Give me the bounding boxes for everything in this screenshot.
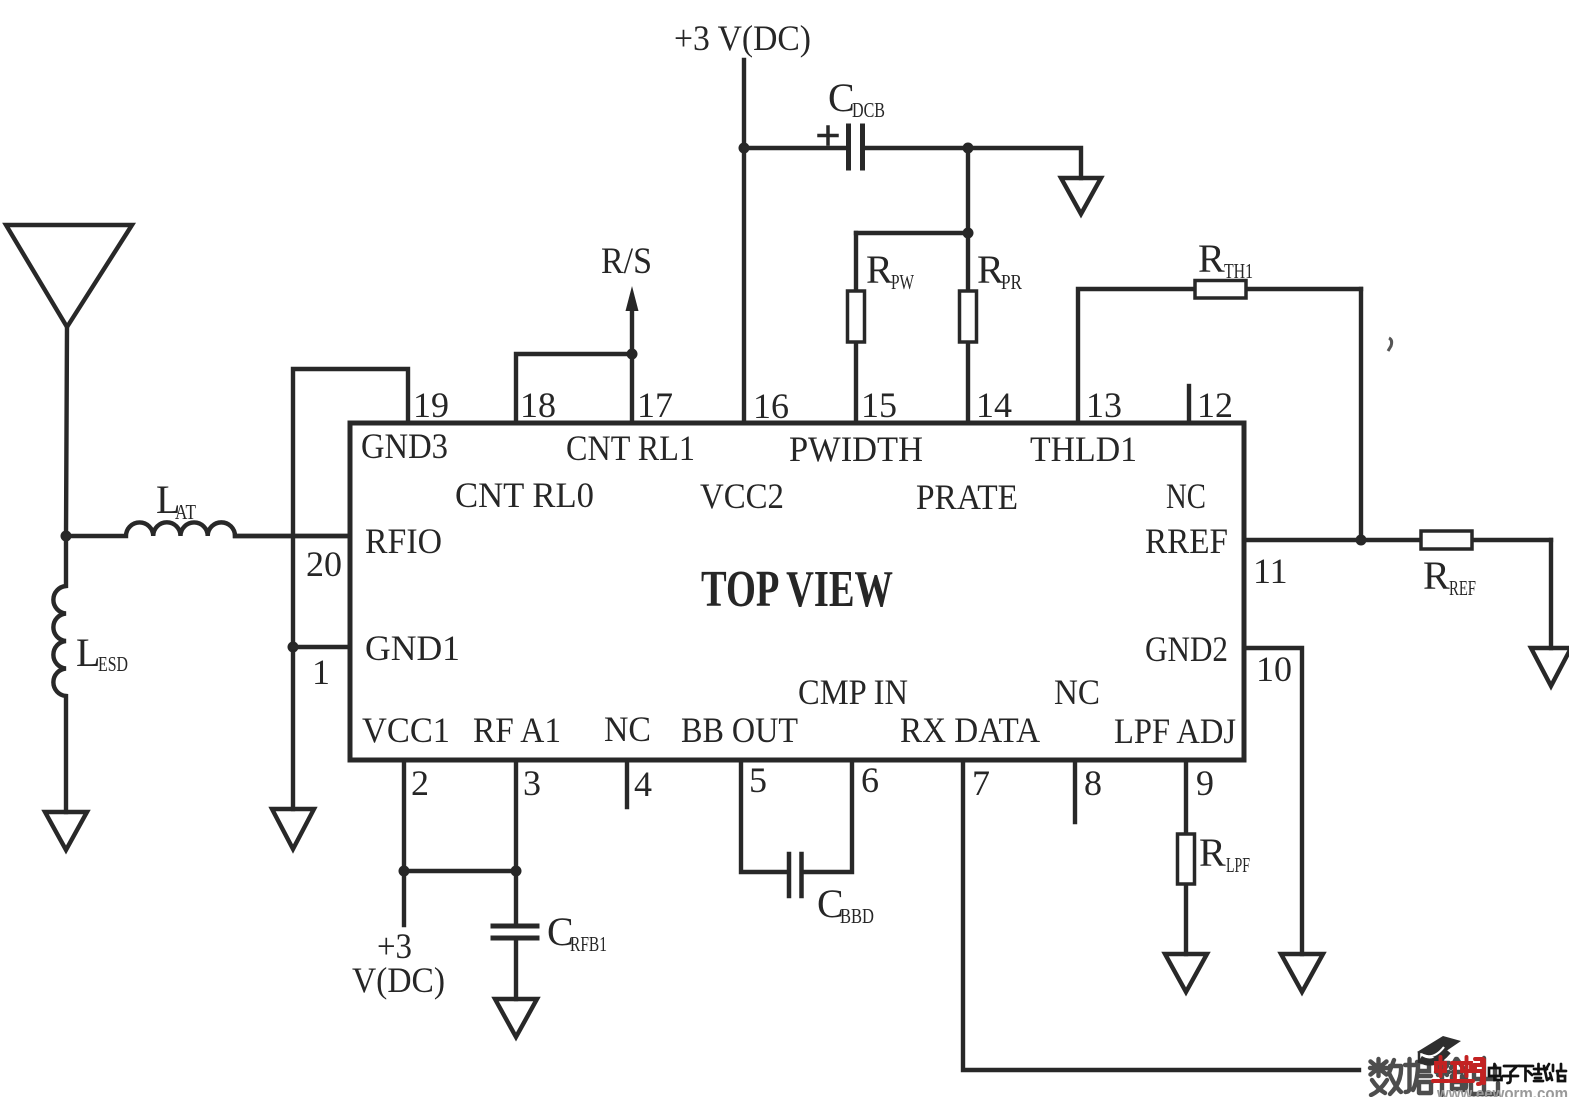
svg-text:PWIDTH: PWIDTH xyxy=(789,429,923,469)
pin numbers xyxy=(306,385,1292,804)
IC U1 body xyxy=(350,423,1244,760)
svg-text:20: 20 xyxy=(306,544,342,584)
svg-text:9: 9 xyxy=(1196,763,1214,803)
node A (antenna / LAT junction) xyxy=(61,531,72,542)
svg-text:RFB1: RFB1 xyxy=(570,932,607,956)
svg-text:4: 4 xyxy=(634,764,652,804)
pin8 stub xyxy=(1073,760,1077,822)
wire RFIO pin20 xyxy=(235,534,350,538)
svg-text:LPF ADJ: LPF ADJ xyxy=(1114,711,1236,751)
ground (under LESD) xyxy=(45,812,87,850)
svg-text:AT: AT xyxy=(175,500,196,524)
svg-text:5: 5 xyxy=(749,760,767,800)
svg-text:VCC1: VCC1 xyxy=(362,710,450,750)
svg-text:13: 13 xyxy=(1086,385,1122,425)
svg-text:GND2: GND2 xyxy=(1145,629,1228,669)
watermark: logo cap xyxy=(1417,1036,1461,1063)
svg-text:14: 14 xyxy=(976,385,1012,425)
inductor LESD xyxy=(53,536,66,812)
scan speck xyxy=(1388,338,1392,351)
node pin2 junction xyxy=(399,866,410,877)
wire pin2 VCC1 xyxy=(402,760,406,925)
svg-text:16: 16 xyxy=(753,386,789,426)
ground (RLPF) xyxy=(1165,954,1207,992)
svg-text:NC: NC xyxy=(1054,672,1100,712)
svg-text:RFIO: RFIO xyxy=(365,521,442,561)
svg-text:6: 6 xyxy=(861,760,879,800)
svg-text:1: 1 xyxy=(312,652,330,692)
polarity + of CDCB xyxy=(819,127,837,144)
svg-text:REF: REF xyxy=(1449,576,1476,600)
IC pin labels xyxy=(361,426,1236,751)
svg-text:12: 12 xyxy=(1197,385,1233,425)
wire pin19 GND3 to gnd bus xyxy=(293,369,408,809)
ground (GND1/GND3 bus) xyxy=(272,809,314,849)
svg-text:+3 V(DC): +3 V(DC) xyxy=(674,18,811,58)
svg-text:PW: PW xyxy=(891,270,914,294)
resistor RLPF xyxy=(1178,834,1195,884)
resistor RPR xyxy=(960,233,977,423)
svg-text:R: R xyxy=(1423,553,1450,598)
pin4 stub xyxy=(625,760,629,807)
svg-text:VCC2: VCC2 xyxy=(700,476,784,516)
watermark: black chars 电子下载站 xyxy=(1489,1064,1566,1083)
wire RTH1 down to RREF node xyxy=(1359,289,1363,540)
svg-text:7: 7 xyxy=(972,763,990,803)
watermark: red chars xyxy=(1433,1057,1484,1084)
wire pin6 CMP IN xyxy=(803,760,852,872)
svg-text:R: R xyxy=(1198,236,1225,281)
wire rail to RPW xyxy=(856,231,968,235)
node CDCB right junction xyxy=(963,143,974,154)
svg-text:DCB: DCB xyxy=(852,98,885,122)
svg-text:11: 11 xyxy=(1253,551,1288,591)
label CRFB1 xyxy=(547,909,607,956)
svg-text:TOP VIEW: TOP VIEW xyxy=(701,561,893,618)
wire RREF to ground xyxy=(1549,540,1553,648)
svg-text:15: 15 xyxy=(861,385,897,425)
svg-text:18: 18 xyxy=(520,385,556,425)
watermark: gray text 数据输出 xyxy=(1370,1058,1498,1095)
svg-text:CNT RL0: CNT RL0 xyxy=(455,475,594,515)
wire pin5 BB OUT xyxy=(741,760,787,872)
svg-text:BB OUT: BB OUT xyxy=(681,710,798,750)
svg-text:NC: NC xyxy=(604,709,651,749)
svg-text:8: 8 xyxy=(1084,763,1102,803)
wire +3V to pin16 VCC2 xyxy=(742,60,746,423)
inductor LAT xyxy=(66,522,350,536)
antenna E1 xyxy=(6,225,132,536)
svg-text:V(DC): V(DC) xyxy=(352,960,445,1000)
svg-text:L: L xyxy=(76,630,100,675)
svg-text:www.eeworm.com: www.eeworm.com xyxy=(1436,1084,1568,1097)
resistor RTH1 xyxy=(1195,281,1361,299)
wire to ground right of CDCB xyxy=(968,148,1081,178)
label CBBD xyxy=(817,881,874,928)
svg-text:R: R xyxy=(1199,830,1226,875)
svg-text:CMP IN: CMP IN xyxy=(798,672,908,712)
label RPR xyxy=(977,247,1022,294)
wire pin11 RREF xyxy=(1244,538,1421,542)
svg-text:ESD: ESD xyxy=(98,652,128,676)
svg-text:R/S: R/S xyxy=(601,241,652,282)
wire pin17 / R/S arrow xyxy=(630,308,634,423)
capacitor CRFB1 xyxy=(493,926,537,999)
svg-text:C: C xyxy=(828,75,855,120)
label RREF xyxy=(1423,553,1476,600)
svg-text:3: 3 xyxy=(523,763,541,803)
label CDCB xyxy=(828,75,885,122)
svg-text:LPF: LPF xyxy=(1226,853,1250,877)
pin12 stub xyxy=(1187,386,1191,423)
svg-text:GND1: GND1 xyxy=(365,628,460,668)
capacitor CDCB xyxy=(744,126,968,168)
svg-text:RF A1: RF A1 xyxy=(473,710,561,750)
label LESD xyxy=(76,630,128,676)
svg-text:R: R xyxy=(866,247,893,292)
svg-text:GND3: GND3 xyxy=(361,426,448,466)
ground (CRFB1) xyxy=(495,999,537,1037)
svg-text:PRATE: PRATE xyxy=(916,477,1018,517)
wire pin2-pin3 tie xyxy=(404,869,516,873)
ground (GND2) xyxy=(1281,954,1323,992)
node RREF junction xyxy=(1356,535,1367,546)
svg-text:2: 2 xyxy=(411,763,429,803)
label RLPF xyxy=(1199,830,1250,877)
node R/S junction xyxy=(627,349,638,360)
svg-text:BBD: BBD xyxy=(840,904,874,928)
wire GND1 pin1 xyxy=(293,645,350,649)
label LAT xyxy=(156,477,196,524)
node GND1 junction xyxy=(288,642,299,653)
svg-text:TH1: TH1 xyxy=(1224,259,1253,283)
capacitor CBBD xyxy=(789,854,802,896)
svg-text:10: 10 xyxy=(1256,649,1292,689)
resistor RREF xyxy=(1421,531,1551,549)
wire pin18 xyxy=(516,354,632,423)
wire pin9 LPF ADJ xyxy=(1184,760,1188,954)
svg-text:THLD1: THLD1 xyxy=(1030,429,1137,469)
svg-text:19: 19 xyxy=(413,385,449,425)
svg-text:17: 17 xyxy=(637,385,673,425)
wire pin7 RX DATA output xyxy=(963,760,1359,1070)
node RPW/RPR junction xyxy=(963,228,974,239)
wire CDCB junction down to RPW/RPR rail xyxy=(966,148,970,233)
ground (RREF) xyxy=(1531,648,1569,686)
wire pin13 THLD1 xyxy=(1078,289,1195,423)
svg-text:R: R xyxy=(977,247,1004,292)
wire pin10 GND2 xyxy=(1244,648,1302,954)
svg-text:NC: NC xyxy=(1166,476,1206,516)
node VCC junction xyxy=(739,143,750,154)
node pin3 junction xyxy=(511,866,522,877)
wire pin3 RF A1 xyxy=(514,760,518,924)
resistor RPW xyxy=(848,233,865,423)
label RTH1 xyxy=(1198,236,1253,283)
svg-text:PR: PR xyxy=(1001,270,1022,294)
svg-text:CNT RL1: CNT RL1 xyxy=(566,428,695,468)
svg-text:RREF: RREF xyxy=(1145,521,1228,561)
svg-text:RX DATA: RX DATA xyxy=(900,710,1040,750)
ground (CDCB) xyxy=(1061,178,1101,214)
label +3 V(DC) bottom xyxy=(352,926,445,1000)
label RPW xyxy=(866,247,914,294)
